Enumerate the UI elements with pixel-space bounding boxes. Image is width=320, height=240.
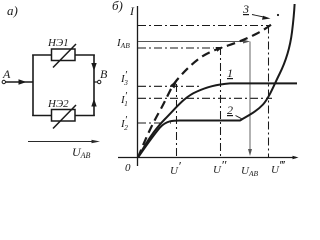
dash-dot level line at U'' crossing (138, 47, 214, 49)
terminal B (98, 80, 101, 83)
dash-dot vertical U''' (268, 26, 270, 158)
current arrow top branch (down toward B) (91, 63, 96, 71)
svg-text:A: A (2, 67, 11, 81)
U axis (horizontal) with arrowhead (118, 157, 296, 159)
dash-dot level line top (curve 3 limit) (138, 25, 269, 27)
stray print dot near curve 3 end (277, 14, 279, 16)
wire top branch left (32, 54, 51, 56)
dash-dot vertical U' (176, 84, 178, 157)
svg-text:а): а) (7, 3, 18, 18)
leader line from label 2 to curve 2 (236, 116, 242, 119)
svg-text:НЭ1: НЭ1 (47, 37, 69, 49)
svg-text:НЭ2: НЭ2 (47, 98, 69, 110)
construction line I_AB level with arrow (138, 41, 245, 43)
svg-text:2: 2 (227, 103, 233, 117)
svg-text:B: B (100, 67, 108, 81)
curve 3 (dashed, parallel sum) (138, 24, 272, 158)
wire right bus (93, 55, 95, 117)
arrowhead on curve 3 at U' (170, 80, 177, 89)
svg-text:3: 3 (242, 2, 249, 16)
varistor НЭ2 body (52, 110, 76, 122)
wire bottom branch right (75, 115, 95, 117)
curve 2 (НЭ2 characteristic) (138, 4, 295, 158)
curve 1 (НЭ1 characteristic) (138, 83, 297, 157)
varistor НЭ1 body (52, 49, 76, 61)
varistor НЭ1 diagonal stroke (53, 44, 76, 68)
construction arrow down to U_AB (249, 42, 251, 152)
I axis (vertical) (137, 6, 139, 166)
voltage arrow U_AB under circuit (28, 141, 97, 143)
svg-text:1: 1 (227, 66, 233, 80)
wire left bus (32, 55, 34, 117)
svg-text:б): б) (112, 0, 123, 13)
svg-text:0: 0 (125, 162, 131, 174)
varistor НЭ2 diagonal stroke (53, 105, 76, 129)
wire A to left junction (6, 81, 33, 83)
wire bottom branch left (32, 115, 51, 117)
dash-dot level I'_2 (138, 122, 171, 124)
arrowhead on curve 3 at U'' (216, 47, 224, 52)
terminal A (2, 80, 5, 83)
dash-dot vertical U'' (220, 47, 222, 157)
wire top branch right (75, 54, 95, 56)
wire stub to terminal B (94, 81, 97, 83)
dash-dot level I'_1 (138, 97, 272, 99)
current arrow on wire A (19, 79, 27, 85)
current arrow bottom branch (up toward B) (91, 99, 96, 107)
dash-dot level I'_3 (138, 85, 200, 87)
